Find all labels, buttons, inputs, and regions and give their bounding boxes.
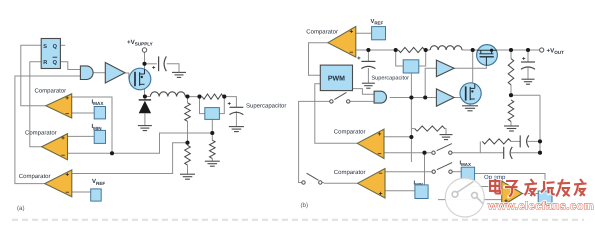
wire capacitor C5 to feedback column	[527, 140, 540, 142]
wire resistor R7 to ground	[510, 121, 512, 125]
watermark logo circle	[445, 178, 484, 217]
svg-text:+: +	[152, 66, 156, 72]
svg-text:Comparator: Comparator	[35, 87, 67, 94]
watermark group begin	[445, 178, 594, 217]
junction divider tap (b)	[509, 93, 513, 97]
box U5 (current-sense element)	[205, 108, 220, 120]
resistor R3 (divider bottom)	[185, 145, 191, 165]
box IMAX reference (a)	[94, 107, 105, 119]
wire R-input from comparator U3 output to latch R	[30, 62, 42, 147]
wire S-input from comparator U2 output to latch S	[21, 45, 46, 106]
MOSFET Q2 (series output switch)	[477, 45, 498, 66]
wire resistor R9 to ground	[445, 129, 446, 135]
ground for resistor R3	[180, 174, 195, 179]
wire main rail comparator to sense resistor	[356, 49, 399, 51]
junction rail sense left (b)	[394, 48, 398, 52]
wire Qbar to AND gate input A	[60, 62, 80, 70]
wire sense bracket right (b)	[419, 50, 426, 66]
wire buffer B2 output to MOSFET Q2 gate	[454, 65, 486, 68]
wire resistor R5 to ground	[211, 158, 213, 161]
buffer B1	[105, 63, 125, 84]
bottom cropped text strip	[12, 219, 584, 221]
wire comparator U6 + input to VREF box (b)	[356, 32, 372, 34]
svg-text:−: −	[61, 153, 65, 160]
svg-text:+: +	[65, 95, 69, 102]
junction gate row/buffer branch	[423, 95, 427, 99]
watermark url text	[487, 201, 594, 213]
junction rail/divider	[185, 94, 189, 98]
wire op-amp A1 + input	[438, 199, 502, 201]
svg-text:Q: Q	[53, 60, 58, 66]
wire branch up to buffer B2	[425, 68, 436, 97]
wire capacitor C1 to ground	[167, 64, 179, 72]
junction node A	[471, 48, 475, 52]
resistor R2 (divider top)	[185, 103, 191, 122]
box PWM modulator	[320, 65, 352, 91]
wire comparator U4 - input to VREF box	[72, 191, 91, 193]
junction sense right	[222, 95, 226, 99]
junction rail/supercap (b)	[366, 48, 370, 52]
capacitor C6 (compensation lower)	[504, 147, 513, 159]
wire comparator U3 + input to IMIN box	[68, 135, 95, 137]
junction gate row/sense column	[409, 95, 413, 99]
svg-text:+: +	[65, 172, 69, 179]
ground for resistor R9	[440, 135, 453, 140]
wire buffer output to MOSFET Q1 gate	[125, 73, 131, 79]
wire MOSFET Q1 drain to switch node	[144, 85, 146, 97]
svg-text:Supercapacitor: Supercapacitor	[246, 103, 286, 110]
resistor R8 (compensation)	[482, 139, 511, 144]
junction feedback/C6	[538, 151, 542, 155]
svg-text:−: −	[377, 151, 381, 158]
wire divider node to resistor R5	[211, 133, 213, 140]
AND gate G2	[374, 91, 386, 103]
wire resistor R6 to tap	[510, 85, 512, 95]
wire sense box column stub below	[410, 137, 412, 162]
wire inductor L2 to MOSFET Q2	[462, 49, 477, 51]
node sense return row to divider	[68, 133, 213, 153]
wire box U5 output down	[211, 119, 213, 133]
svg-text:Comparator: Comparator	[334, 128, 366, 135]
svg-text:(a): (a)	[17, 205, 25, 212]
svg-text:VREF: VREF	[371, 19, 384, 26]
wire IMAX box to op-amp network	[474, 174, 545, 192]
feedback column	[539, 95, 541, 153]
wire sense box U10 output column	[410, 73, 412, 137]
junction feedback/C5	[538, 139, 542, 143]
box IMIN reference (a)	[94, 130, 105, 143]
comparator U2 (IMAX)	[46, 94, 72, 119]
wire sense bracket left to box U5	[200, 97, 205, 114]
wire rail to resistor R2	[187, 97, 189, 103]
box at op-amp output	[538, 191, 552, 205]
wire supercapacitor C3 to ground	[367, 68, 369, 83]
wire sense resistor R1 to supercapacitor C2	[223, 97, 236, 108]
watermark glyph zi	[505, 181, 518, 196]
watermark glyph extra	[574, 179, 587, 196]
buffer B2 (gate driver upper)	[436, 60, 454, 77]
svg-text:+: +	[349, 29, 353, 36]
comparator U6 (PWM control)	[328, 27, 356, 58]
wire sense bracket left (b)	[396, 50, 404, 66]
junction R5 top	[210, 131, 214, 135]
wire comparator U4 output to AND gate input B	[15, 76, 81, 184]
wire comparator U7 - input to switch S2	[384, 152, 432, 154]
wire Q output stub	[60, 44, 65, 46]
svg-text:Comparator: Comparator	[25, 130, 57, 137]
ground for supercapacitor C3	[362, 83, 375, 88]
wire supercapacitor C3 column	[367, 50, 369, 61]
ground for supercapacitor C2	[229, 127, 244, 132]
svg-text:PWM: PWM	[328, 76, 345, 83]
junction sense left	[197, 95, 201, 99]
capacitor C1 (supply bypass)	[152, 56, 166, 71]
resistor R7 (divider b bottom)	[508, 100, 514, 122]
wire buffer B3 output to MOSFET Q3 gate	[454, 97, 461, 99]
resistor R6 (divider b top)	[508, 59, 514, 85]
latch U1 (set-reset flip-flop)	[41, 39, 60, 69]
resistor R9 (ramp)	[415, 126, 445, 131]
box U10 (current-sense element b)	[403, 60, 419, 73]
wire comparator U6 output to PWM input 1	[309, 43, 328, 76]
comparator U8 (current limit)	[358, 169, 386, 199]
wire node A to MOSFET Q3 drain	[472, 50, 474, 83]
svg-text:−: −	[65, 190, 69, 197]
svg-text:S: S	[43, 44, 47, 50]
switch S4	[432, 163, 452, 174]
ground for capacitor C4	[522, 79, 535, 84]
wire comparator U8 + input to IMIN box (b)	[385, 190, 416, 192]
box IMAX reference (b)	[461, 167, 474, 180]
junction output node/divider	[509, 48, 513, 52]
wire op-amp A1 output to box	[522, 193, 538, 195]
wire comparator U7 output to PWM input 2	[315, 84, 357, 144]
wire switch S4 to IMAX box (b)	[452, 171, 461, 173]
ground for MOSFET Q3	[462, 106, 478, 111]
svg-text:+: +	[522, 56, 526, 62]
wire switch S1 row to AND gate G2	[350, 100, 374, 102]
svg-text:+: +	[379, 190, 383, 197]
wire divider tap to feedback column	[511, 94, 540, 96]
MOSFET Q1 (PMOS high-side switch)	[129, 68, 151, 90]
ground for diode D1	[138, 126, 152, 131]
wire MOSFET Q2 to output node	[497, 49, 540, 51]
wire comparator U8 output to switch S3	[320, 182, 357, 185]
terminal +Vout	[540, 48, 544, 52]
circuit (b) group begin	[299, 19, 565, 209]
wire comparator U4 + input to divider tap	[72, 143, 188, 174]
wire rail sense to inductor L2	[425, 49, 431, 51]
capacitor C4 (output)	[521, 56, 535, 69]
watermark glyph shao	[541, 181, 555, 194]
wire comparator U2 + input to current-sense node	[72, 97, 112, 153]
switch S1 (near PWM)	[330, 92, 350, 103]
wire comparator U7 + input to sense box column	[384, 136, 411, 138]
watermark glyph you	[556, 179, 570, 196]
wire lower branch to capacitor C6	[480, 152, 503, 154]
junction sense return	[110, 151, 114, 155]
wire switch S2 to compensation network	[452, 141, 480, 152]
junction rail sense right (b)	[424, 48, 428, 52]
svg-text:Q: Q	[53, 44, 58, 50]
junction U7 + input	[409, 135, 413, 139]
wire RC ramp resistor R9 lead	[411, 128, 414, 130]
box VREF reference (b)	[372, 27, 386, 40]
wire comparator U2 - input to IMAX box	[72, 112, 95, 114]
comparator U4 (voltage)	[45, 170, 72, 197]
svg-text:Comparator: Comparator	[334, 169, 366, 176]
wire capacitor C4 to ground	[527, 68, 529, 79]
svg-text:+: +	[378, 131, 382, 138]
wire MOSFET Q3 source to ground	[469, 104, 471, 106]
junction output node/capacitor	[526, 48, 530, 52]
switch S3 (enable)	[302, 173, 322, 184]
ground for resistor R7	[504, 126, 519, 131]
wire supercapacitor C2 to ground	[235, 111, 237, 126]
svg-text:−: −	[378, 171, 382, 178]
inductor L2	[430, 46, 462, 50]
AND gate G1	[80, 66, 93, 80]
svg-text:+: +	[227, 101, 231, 107]
resistor R1 (current sense)	[202, 94, 223, 99]
wire resistor R8 to capacitor C5	[511, 140, 520, 142]
junction divider tap	[185, 141, 189, 145]
ground for capacitor C1	[172, 72, 186, 77]
wire PWM gate row to buffer B3	[390, 97, 437, 99]
wire AND output to buffer input	[93, 72, 105, 74]
comparator U7 (current loop)	[357, 129, 384, 158]
wire resistor R3 to ground	[187, 165, 189, 174]
wire capacitor C6 to feedback column	[511, 152, 540, 154]
wire output node to capacitor C4	[527, 50, 529, 62]
svg-text:+: +	[61, 135, 65, 142]
wire IMIN column (b)	[424, 153, 426, 187]
wire +Vsupply drop to MOSFET Q1 source	[144, 52, 146, 69]
capacitor C5 (compensation upper)	[520, 135, 529, 147]
svg-text:+: +	[357, 56, 361, 62]
svg-text:www.elecfans.com: www.elecfans.com	[487, 201, 594, 213]
svg-text:IMAX: IMAX	[460, 160, 471, 167]
wire resistor R2 to resistor R3 node	[187, 121, 189, 145]
wire PWM output to AND gate G2	[353, 89, 375, 95]
wire output node to divider resistor R6	[510, 50, 512, 59]
junction U7 - row / IMIN column	[422, 151, 426, 155]
circuit (a) group begin	[15, 39, 286, 213]
supercapacitor C2	[227, 101, 243, 114]
svg-text:−: −	[349, 49, 353, 56]
wire sense bracket right to box U5	[219, 97, 224, 114]
junction switch node	[143, 94, 147, 98]
svg-text:Comparator: Comparator	[306, 29, 338, 36]
wire switch node to inductor L1	[145, 96, 151, 98]
diode D1 (freewheel)	[139, 100, 151, 113]
switch S2	[432, 144, 452, 155]
supercapacitor C3	[357, 56, 375, 69]
ground for resistor R5	[205, 161, 220, 166]
watermark glyph fa	[525, 179, 538, 196]
wire supply to bypass capacitor C1	[145, 63, 157, 65]
buffer B3 (gate driver lower)	[436, 89, 454, 106]
box IMIN reference (b)	[415, 185, 428, 199]
wire op-amp A1 - input	[468, 181, 502, 187]
resistor R4 (current sense b)	[398, 47, 424, 52]
wire inductor L1 to sense resistor R1	[185, 96, 202, 98]
terminal +Vsupply	[142, 48, 146, 52]
watermark glyph dian	[490, 179, 500, 193]
wire comparator U8 - input to switch S4	[385, 171, 432, 173]
resistor R5	[210, 140, 216, 158]
svg-text:Supercapacitor: Supercapacitor	[371, 74, 409, 81]
comparator U3 (IMIN)	[42, 134, 68, 160]
MOSFET Q3 (shunt switch)	[460, 83, 481, 104]
svg-text:−: −	[65, 111, 69, 118]
wire switch S1 to enable loop	[299, 101, 330, 182]
svg-text:Comparator: Comparator	[19, 173, 51, 180]
svg-text:(b): (b)	[301, 202, 309, 209]
svg-text:R: R	[43, 60, 47, 66]
junction supply/cap node	[142, 62, 146, 66]
inductor L1	[150, 92, 185, 97]
wire diode D1 to ground	[144, 113, 146, 125]
box VREF reference (a)	[91, 189, 102, 201]
op-amp A1	[502, 181, 523, 206]
wire switch node to diode D1	[144, 97, 146, 101]
